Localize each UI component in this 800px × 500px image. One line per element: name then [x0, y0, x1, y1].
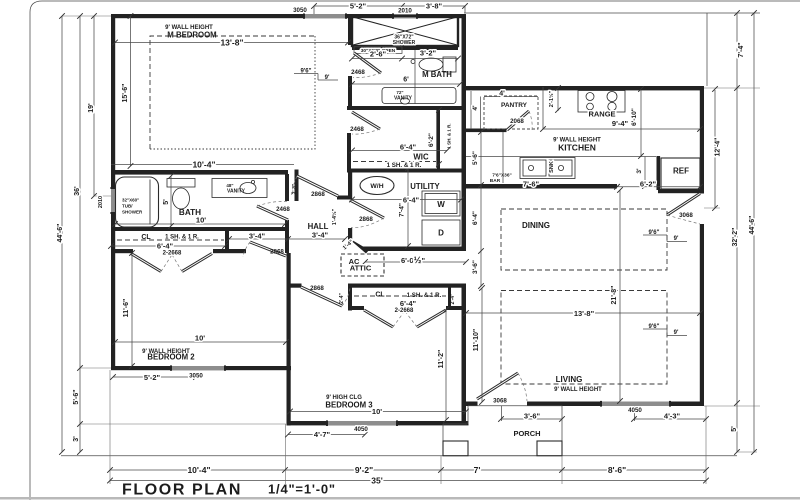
door bath leaf [257, 206, 288, 220]
svg-text:6'-4": 6'-4" [157, 242, 174, 251]
dim line kitchen 6'-2 [617, 186, 700, 188]
svg-text:BAR: BAR [490, 178, 501, 184]
svg-text:LIVING: LIVING [556, 375, 583, 384]
window 3050 top wall [305, 14, 345, 18]
toilet M bath [443, 57, 456, 72]
svg-text:48": 48" [226, 183, 233, 188]
wall kitchen north [462, 86, 705, 90]
svg-text:6'-2": 6'-2" [428, 133, 435, 147]
svg-text:11'-6": 11'-6" [123, 299, 130, 318]
tub bath [116, 177, 159, 227]
svg-text:5': 5' [731, 426, 738, 432]
wall REF nook west [657, 156, 661, 190]
svg-text:6'-2": 6'-2" [640, 180, 657, 189]
door dining rear leaf [667, 194, 700, 216]
door bedroom3 leaf [301, 287, 342, 306]
svg-text:13'-8": 13'-8" [220, 38, 243, 48]
svg-text:21'-8": 21'-8" [611, 286, 618, 305]
wall bath east lower [285, 220, 289, 253]
svg-text:CL: CL [375, 292, 385, 299]
dim line bath 10'-4 [111, 164, 294, 166]
svg-text:SNK: SNK [549, 161, 555, 173]
svg-text:9'6": 9'6" [649, 230, 660, 236]
svg-text:2868: 2868 [311, 191, 325, 198]
CL shelf dashed line [117, 239, 224, 241]
svg-text:2868: 2868 [270, 249, 284, 256]
window 3050 bedroom2 [172, 366, 224, 370]
svg-text:9'-4": 9'-4" [612, 119, 629, 128]
svg-text:BEDROOM 3: BEDROOM 3 [325, 401, 373, 410]
wall living south segments [462, 402, 478, 407]
dim line hall 3'-4 right [288, 238, 345, 240]
svg-text:2010: 2010 [98, 196, 104, 208]
dim line CL 6'-4 [111, 245, 225, 247]
AC attic dashed box [341, 254, 384, 276]
svg-text:9': 9' [325, 75, 330, 81]
shower open label box [354, 47, 402, 54]
svg-text:VANITY: VANITY [227, 189, 246, 195]
svg-text:TUB/: TUB/ [122, 204, 133, 209]
wall utility west upper [348, 172, 352, 199]
svg-text:9'6": 9'6" [301, 69, 312, 75]
dim line WIC 6'-4 [352, 150, 447, 152]
wall bedroom2 south [111, 366, 291, 370]
dim line living 11'-10 [481, 288, 483, 402]
svg-text:35': 35' [371, 476, 382, 486]
svg-text:6': 6' [403, 77, 409, 84]
CL3 shelf dashed line [354, 295, 446, 297]
shower X diagonals [353, 17, 457, 45]
svg-text:REF: REF [673, 167, 689, 176]
dim line bedroom3 10' [290, 411, 466, 413]
porch column right [537, 441, 562, 456]
CL3 double doors leaves [364, 310, 393, 327]
wall CL3 shelf partition [448, 287, 451, 308]
porch outline [443, 406, 562, 456]
svg-text:M BATH: M BATH [422, 70, 452, 79]
svg-text:1 SH. & 1 R.: 1 SH. & 1 R. [387, 162, 422, 169]
svg-text:5'-2": 5'-2" [144, 373, 161, 382]
svg-text:1 SH. & 1 R.: 1 SH. & 1 R. [165, 235, 199, 241]
wall kitchen bar [466, 184, 617, 189]
svg-text:3050: 3050 [189, 373, 203, 380]
door pantry leaf [507, 111, 529, 130]
tray ceiling living [501, 291, 667, 385]
svg-text:SHOWER: SHOWER [122, 210, 143, 215]
wall CL east [225, 231, 229, 253]
wall CL3 west [348, 284, 352, 311]
wall CL south west segment [111, 249, 133, 253]
svg-text:2'-4": 2'-4" [450, 293, 456, 304]
svg-text:3'-6": 3'-6" [524, 412, 541, 421]
svg-text:2068: 2068 [510, 118, 524, 125]
svg-text:7'-4": 7'-4" [399, 203, 406, 217]
svg-text:72": 72" [396, 90, 403, 95]
wall bath south / CL north [111, 227, 289, 231]
window 4050 living south [602, 402, 669, 407]
svg-text:3'-8": 3'-8" [426, 2, 443, 11]
svg-text:10'-4": 10'-4" [187, 465, 210, 475]
svg-text:6'-0½": 6'-0½" [401, 255, 426, 266]
svg-text:2-2668: 2-2668 [395, 308, 414, 314]
dim line M bath 2'-6 / 3'-2 [352, 58, 458, 60]
dim line right 12'-4 [714, 90, 716, 208]
door living leaf [477, 373, 518, 399]
wall hall north stub east [337, 196, 351, 200]
door hall north leaf [297, 176, 338, 196]
svg-text:1/4"=1'-0": 1/4"=1'-0" [268, 482, 336, 497]
svg-text:D: D [438, 229, 444, 238]
svg-text:W/H: W/H [370, 183, 383, 190]
svg-text:36': 36' [74, 186, 81, 196]
extension lines left [62, 16, 286, 424]
dim line bath 5' [170, 176, 172, 226]
svg-text:8'-6": 8'-6" [608, 465, 626, 475]
kitchen counter edge [466, 132, 656, 183]
dim line bedroom2 11'-6 [131, 253, 133, 366]
dim line M bedroom 15'-6 [130, 16, 132, 166]
wall utility south [363, 247, 466, 252]
svg-text:7'-4": 7'-4" [738, 42, 745, 57]
svg-text:3': 3' [73, 436, 80, 442]
svg-text:4050: 4050 [628, 407, 642, 414]
dim line living 13'-8 [466, 312, 700, 314]
wall exterior top [111, 14, 466, 18]
wall bedroom3 south [287, 421, 469, 425]
wall WIC west [347, 133, 351, 170]
svg-text:PANTRY: PANTRY [501, 102, 528, 109]
svg-text:2468: 2468 [276, 206, 290, 213]
svg-text:9' WALL HEIGHT: 9' WALL HEIGHT [554, 387, 602, 393]
svg-text:2010: 2010 [398, 8, 412, 15]
thin patio outline top right [464, 12, 760, 14]
wall M bedroom east upper [348, 14, 352, 45]
wall M bedroom east lower [348, 76, 352, 110]
svg-text:7'-6": 7'-6" [523, 180, 540, 189]
svg-text:FLOOR PLAN: FLOOR PLAN [122, 482, 242, 499]
svg-text:2-2668: 2-2668 [163, 251, 182, 257]
svg-text:6'-4": 6'-4" [400, 299, 417, 308]
svg-text:3'-6": 3'-6" [472, 260, 479, 274]
tick marks horizontal dims [107, 3, 709, 483]
range [578, 91, 625, 113]
wall stub M bedroom SE corner down [295, 170, 299, 202]
svg-text:2'-4": 2'-4" [339, 292, 345, 303]
dryer box [422, 220, 460, 245]
svg-text:2'-6": 2'-6" [370, 50, 387, 59]
svg-text:PORCH: PORCH [513, 429, 540, 438]
window 2010 left wall [111, 189, 115, 212]
wall REF nook south [658, 189, 704, 193]
wall exterior east [700, 86, 704, 194]
pantry west wall line [471, 91, 538, 129]
dim line right 44'-6 [753, 13, 755, 452]
WIC shelf dashed line [353, 161, 436, 163]
ceiling label underlines dining [643, 235, 687, 242]
svg-text:7': 7' [474, 465, 481, 475]
dim line utility 6'-0.5 [365, 261, 466, 263]
wall pantry south [462, 129, 507, 133]
extension line M bath 3'-2 [414, 50, 416, 104]
svg-text:11'-2": 11'-2" [438, 350, 445, 369]
svg-text:3'-2": 3'-2" [420, 49, 437, 58]
door WIC leaf [352, 112, 380, 129]
svg-text:10': 10' [196, 216, 206, 225]
dim line M bedroom 13'-8 [115, 42, 348, 44]
svg-text:VANITY: VANITY [394, 96, 413, 102]
extension lines bottom [110, 370, 706, 484]
wall WIC south / utility north [347, 169, 466, 173]
svg-text:2'-4": 2'-4" [292, 183, 298, 194]
svg-text:3'-4": 3'-4" [312, 231, 329, 240]
svg-text:RANGE: RANGE [588, 110, 615, 119]
svg-text:UTILITY: UTILITY [410, 182, 440, 191]
dim line kitchen 9'-4 [543, 87, 700, 129]
wall M bath south [347, 106, 466, 110]
svg-text:10': 10' [372, 407, 382, 416]
svg-text:44'-6": 44'-6" [57, 224, 64, 243]
wall east lower (CL3 / bedroom3 east / living west) [462, 284, 467, 424]
svg-text:2868: 2868 [310, 285, 324, 292]
water heater [360, 177, 394, 195]
svg-text:2'-1½": 2'-1½" [548, 90, 555, 107]
svg-text:13'-8": 13'-8" [574, 309, 595, 318]
washer box [422, 191, 460, 216]
wall bedroom3 west [287, 366, 291, 426]
svg-text:4': 4' [472, 105, 479, 111]
svg-text:1 SH. & 1 R.: 1 SH. & 1 R. [407, 292, 442, 299]
svg-text:DINING: DINING [522, 221, 550, 230]
svg-text:1 SH. & 1 R.: 1 SH. & 1 R. [447, 123, 452, 148]
CL double doors leaves [131, 254, 161, 272]
svg-text:11'-10": 11'-10" [473, 329, 480, 352]
REF box [661, 158, 700, 189]
dim line kitchen 3' [644, 157, 646, 185]
wall shower south [352, 47, 458, 50]
dim line bedroom3 11'-2 [445, 310, 447, 420]
svg-text:19': 19' [88, 103, 95, 113]
svg-text:6'-10": 6'-10" [631, 108, 638, 126]
svg-text:6'-4": 6'-4" [472, 211, 479, 225]
svg-text:5': 5' [163, 199, 170, 205]
dim line porch 3'-6 [501, 406, 562, 421]
svg-text:10'-4": 10'-4" [192, 159, 215, 169]
dim line living 4'-3 [634, 406, 706, 421]
dim line bottom row [110, 469, 706, 471]
dim line bath 10' [115, 223, 285, 225]
svg-text:32"X60": 32"X60" [122, 198, 139, 203]
window 2010 top wall [394, 14, 416, 18]
wall CL3 south segments [348, 306, 364, 310]
dim line living 21'-8 [619, 190, 621, 401]
wall utility chamfer [348, 238, 369, 254]
dim line left 19' [93, 16, 95, 196]
svg-text:SHOWER: SHOWER [393, 40, 416, 46]
tick marks vertical dims [59, 10, 757, 455]
dim line bedroom3 4'-7 [288, 434, 365, 436]
svg-text:7'6"X36": 7'6"X36" [492, 173, 512, 179]
svg-text:4'-3": 4'-3" [664, 412, 681, 421]
svg-text:9'-2": 9'-2" [355, 465, 373, 475]
svg-text:9': 9' [674, 236, 679, 242]
vanity bath [212, 179, 267, 198]
svg-text:5'-2": 5'-2" [350, 2, 367, 11]
dim line bottom 35' [110, 480, 706, 482]
svg-text:1'-4½": 1'-4½" [331, 208, 338, 225]
svg-text:3'-4": 3'-4" [249, 232, 266, 241]
svg-text:9': 9' [674, 330, 679, 336]
wall exterior left [111, 14, 115, 370]
toilet bath [167, 179, 195, 188]
extension lines right [704, 88, 760, 452]
dim line left 36'/5'-6/3' [79, 16, 81, 452]
svg-text:6'-4": 6'-4" [400, 143, 417, 152]
wall WIC shelf partition [437, 110, 440, 170]
svg-text:M BEDROOM: M BEDROOM [167, 31, 216, 40]
dim line top 5'-2 / 3'-8 [314, 6, 465, 14]
sink counter [520, 158, 575, 179]
wall bath east upper [285, 174, 289, 201]
porch column left [443, 441, 468, 456]
svg-text:BEDROOM 2: BEDROOM 2 [147, 353, 195, 362]
tray ceiling dining [501, 209, 667, 270]
dim line range 2'-1.5 [557, 91, 559, 112]
window 4050 bedroom3 [328, 421, 396, 425]
wall east upper (M bath / WIC / utility / kitchen west) [462, 14, 467, 251]
door bedroom2 leaf [250, 242, 286, 256]
door M bedroom leaf [354, 53, 381, 73]
tray ceiling M bedroom [150, 36, 315, 149]
svg-text:32'-2": 32'-2" [732, 228, 739, 247]
svg-text:3': 3' [636, 168, 643, 174]
svg-text:4050: 4050 [354, 426, 368, 433]
svg-text:KITCHEN: KITCHEN [558, 143, 596, 153]
svg-text:WIC: WIC [413, 153, 429, 162]
pantry dashed box [484, 96, 538, 129]
dim line hall 3'-4 left [229, 238, 288, 240]
svg-text:CL: CL [141, 234, 151, 241]
svg-text:44'-6": 44'-6" [749, 216, 756, 235]
dim line bedroom2 10' [115, 341, 286, 343]
svg-text:3050: 3050 [293, 7, 307, 14]
svg-text:2468: 2468 [351, 69, 365, 76]
wall CL south east segment [213, 249, 246, 253]
vanity M bath [382, 88, 456, 104]
dim line right 7'-4/32'-2/5' [736, 13, 738, 452]
svg-text:3068: 3068 [493, 398, 507, 405]
dim line utility 6'-4 [352, 199, 461, 201]
svg-text:4'-7": 4'-7" [314, 430, 331, 439]
svg-text:2468: 2468 [350, 126, 364, 133]
svg-text:2868: 2868 [359, 216, 373, 223]
dim line left 44'-6 [61, 16, 63, 452]
dim line bedroom2 5'-2 [113, 376, 196, 378]
svg-text:9'6": 9'6" [649, 324, 660, 330]
svg-text:5'-6": 5'-6" [73, 389, 80, 404]
dim line kitchen 6'-10 [640, 91, 642, 157]
wall bedroom2 east [287, 253, 291, 368]
wall CL3 north [287, 284, 302, 288]
dim line utility 7'-4 [407, 168, 409, 246]
svg-text:12'-4": 12'-4" [715, 138, 722, 157]
ceiling label underlines M bedroom [294, 74, 338, 81]
svg-text:ATTIC: ATTIC [350, 264, 372, 273]
wall utility west lower [348, 228, 352, 241]
dim line WIC 6'-2 [436, 110, 438, 168]
svg-text:5'-6": 5'-6" [472, 151, 479, 165]
wall M bedroom south [111, 170, 288, 175]
dim line M bath 6' [352, 83, 460, 85]
svg-text:10': 10' [195, 334, 205, 343]
svg-text:W: W [437, 200, 445, 209]
svg-text:15'-6": 15'-6" [122, 84, 129, 103]
door utility leaf [350, 200, 384, 218]
svg-text:4': 4' [499, 91, 505, 98]
shower box M bath [352, 16, 458, 46]
ceiling label underlines living [643, 329, 687, 336]
svg-text:3068: 3068 [679, 212, 693, 219]
patio slab line bottom [61, 455, 737, 457]
svg-text:6'-4": 6'-4" [403, 195, 420, 204]
dim line kitchen col 5'-6/6'-4/3'-6 [480, 132, 482, 286]
